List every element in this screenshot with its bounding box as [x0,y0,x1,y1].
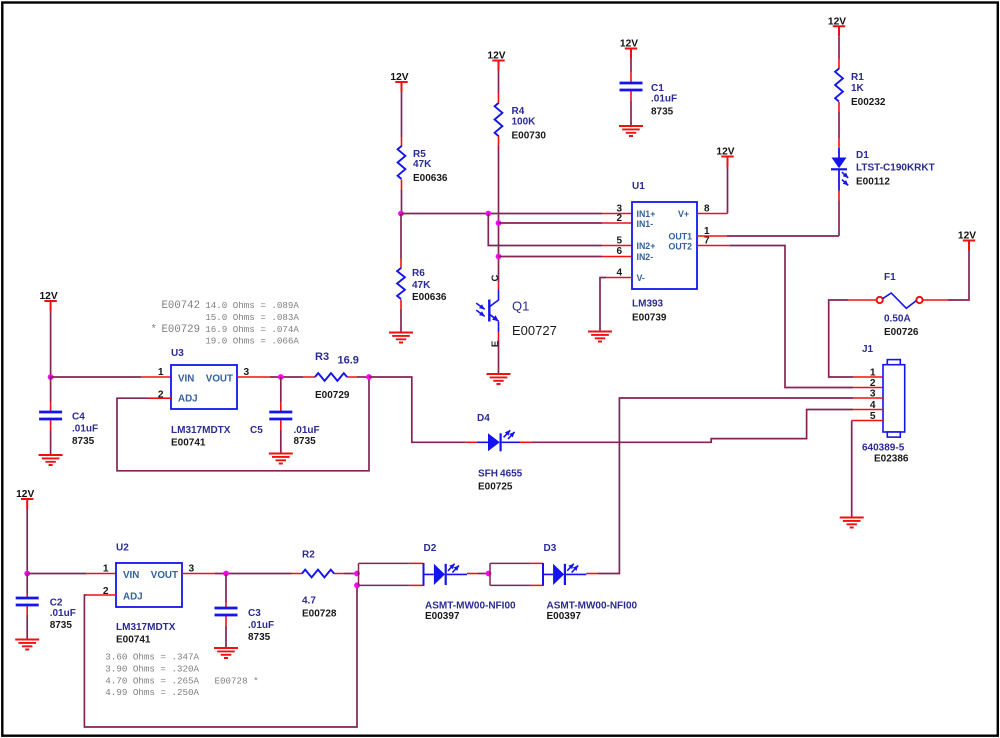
ground (C1) [619,126,643,136]
wire R1 to D1 [838,112,840,138]
svg-text:47K: 47K [413,159,432,170]
svg-text:E00729: E00729 [162,324,200,336]
capacitor C5 [250,412,320,447]
svg-text:14.0 Ohms = .089A: 14.0 Ohms = .089A [205,300,299,311]
resistor R4 [495,103,547,142]
svg-text:LTST-C190KRKT: LTST-C190KRKT [856,163,935,174]
svg-text:IN1-: IN1- [637,219,654,229]
wire J1 pin 3 to D3 cathode [597,398,853,574]
resistor R2 [302,550,337,620]
wire 12V to R1 [838,36,840,58]
resistor R3 [315,351,359,401]
svg-text:E00397: E00397 [425,611,460,622]
svg-text:E00728: E00728 [302,609,337,620]
comparator U1 (LM393) [632,181,697,324]
wire OUT2 to J1 pin 2 [730,246,853,388]
wire R2 pin stubs [291,573,345,575]
svg-text:E00739: E00739 [632,313,667,324]
pin 7 lead U1 OUT2 [697,245,730,247]
resistor R1 [835,69,886,109]
svg-text:IN2-: IN2- [637,252,654,262]
svg-text:J1: J1 [862,344,874,355]
pin 5 lead J1 [852,420,883,422]
pin 2 lead U2 ADJ [86,594,116,596]
svg-text:ASMT-MW00-NFI00: ASMT-MW00-NFI00 [425,601,516,612]
ground (U1 V-) [588,332,612,342]
svg-text:12V: 12V [958,231,976,242]
power 12V (R4 top) [487,51,505,71]
note R3 resistance table [151,300,300,347]
pin 3 lead J1 [853,397,883,399]
svg-text:12V: 12V [40,291,58,302]
wire R3 pin stubs [303,376,357,378]
svg-text:E00729: E00729 [315,390,350,401]
junction U3 VOUT / C5 [278,374,284,380]
junction R4 column / IN1- tap [496,220,502,226]
svg-text:.01uF: .01uF [50,608,76,619]
diode D1 (LED LTST-C190KRKT) [831,148,935,191]
svg-text:SFH 4655: SFH 4655 [478,469,523,480]
wire divider to U1 IN2+ [488,214,602,246]
ground (Q1 emitter) [487,374,511,384]
svg-text:E00636: E00636 [412,292,447,303]
svg-text:VIN: VIN [123,570,139,581]
pin 3 lead U3 VOUT [237,376,270,378]
svg-text:12V: 12V [716,147,734,158]
pin 4 lead U1 V- [606,277,632,279]
svg-text:LM317MDTX: LM317MDTX [171,425,231,436]
svg-text:5: 5 [616,236,622,247]
connector J1 (640389-5) [862,344,909,465]
svg-text:ADJ: ADJ [123,592,143,603]
svg-text:3.60 Ohms = .347A: 3.60 Ohms = .347A [105,652,199,663]
pin E lead Q1 emitter [498,332,500,340]
svg-text:3.90 Ohms = .320A: 3.90 Ohms = .320A [105,663,199,674]
note R2 resistance table [105,652,258,699]
svg-text:VOUT: VOUT [206,374,233,385]
pin lead D1 anode [838,138,840,148]
svg-text:ASMT-MW00-NFI00: ASMT-MW00-NFI00 [547,601,638,612]
pin 2 lead J1 [853,387,883,389]
wire node down to C4 [50,377,52,402]
diode D4 (SFH 4655 IR LED) [477,413,523,493]
resistor R5 [398,146,448,184]
svg-text:1: 1 [103,564,109,575]
power 12V (R1/D1 top) [828,16,846,36]
wire R6 pin stubs [400,258,402,310]
regulator U2 (LM317MDTX) [116,543,182,646]
svg-text:12V: 12V [828,16,846,27]
diode D3 (ASMT-MW00-NFI00 LED) [490,543,638,622]
svg-text:E00726: E00726 [884,327,919,338]
wire to U1 IN2- [499,256,603,258]
wire node down to C2 [26,574,28,594]
svg-text:8735: 8735 [651,107,674,118]
wire U1 V- to ground [600,278,606,332]
wire U1 V+ to 12V [727,167,729,214]
wire R6 to ground [400,310,402,333]
junction D2 / D3 [486,571,492,577]
transistor Q1 (phototransistor) [476,274,557,347]
pin lead F1 left [848,299,877,301]
ground (R6) [389,333,413,343]
svg-text:ADJ: ADJ [178,394,198,405]
pin 2 lead U3 ADJ [148,397,171,399]
pin 4 lead J1 [853,409,883,411]
svg-text:E00112: E00112 [856,177,890,188]
pin lead D3 cathode [586,573,597,575]
svg-text:R2: R2 [302,550,315,561]
wire C2 to ground [26,615,28,639]
svg-text:.01uF: .01uF [294,425,320,436]
regulator U3 (LM317MDTX) [171,348,237,449]
svg-text:1: 1 [158,367,164,378]
wire R3 junction to D4 [369,377,466,442]
junction C2 / U2 VIN [24,571,30,577]
capacitor C3 [215,608,275,643]
pin 3 lead U2 VOUT [182,573,215,575]
power 12V (C4/U3 input) [40,291,58,311]
svg-text:E00397: E00397 [547,611,582,622]
wire C3 pin stubs [225,603,227,627]
svg-text:D1: D1 [856,150,869,161]
svg-text:4.70 Ohms = .265A: 4.70 Ohms = .265A [105,675,199,686]
wire R4 pin stubs [498,93,500,147]
wire C3 column [225,574,227,603]
svg-text:E00636: E00636 [413,173,448,184]
svg-text:12V: 12V [390,72,408,83]
pin numbers U3 [158,367,250,400]
wire R5 pin stubs [401,137,403,191]
wire 12V to R5 [401,92,403,137]
wire 12V to R4 [498,71,500,94]
svg-text:U2: U2 [116,543,129,554]
svg-text:1: 1 [870,367,876,378]
pin 5 lead U1 IN2+ [602,245,632,247]
svg-text:R4: R4 [512,106,525,117]
wire F1 to J1 pin 1 [829,300,853,377]
ground (C4) [39,455,63,465]
wire D1 to OUT1 node [838,201,840,237]
svg-text:8735: 8735 [50,620,73,631]
svg-text:2: 2 [870,378,876,389]
pin lead D1 cathode [838,191,840,201]
svg-text:E00741: E00741 [171,438,206,449]
svg-text:640389-5: 640389-5 [862,443,905,454]
wire C5 column [280,377,282,402]
svg-text:100K: 100K [512,117,537,128]
pin 1 lead U2 VIN [86,573,116,575]
wire 12V to C1 [630,59,632,73]
pin 6 lead U1 IN2- [602,256,632,258]
wire C2 pin stubs [26,593,28,615]
wire OUT1 to D1 column [727,235,839,237]
svg-text:.01uF: .01uF [651,94,677,105]
wire C4 pin stubs [50,402,52,430]
svg-text:OUT1: OUT1 [669,232,693,242]
svg-text:C1: C1 [651,83,664,94]
wire C4 to ground [50,430,52,455]
pin numbers U2 [103,564,195,597]
svg-text:8735: 8735 [248,632,271,643]
svg-text:0.50A: 0.50A [884,314,911,325]
svg-text:R1: R1 [851,72,864,83]
wire D2 to D3 [478,573,489,575]
svg-text:.01uF: .01uF [248,620,274,631]
ground (C3) [214,648,238,658]
wire node to U3 VIN [51,376,141,378]
fuse F1 (0.50A) [877,272,923,338]
svg-text:8735: 8735 [294,436,317,447]
junction R4 column / IN2- tap [496,254,502,260]
pin 3 lead U1 IN1+ [602,213,632,215]
svg-text:*: * [151,324,157,336]
capacitor C4 [39,412,98,448]
svg-text:6: 6 [616,246,622,257]
pin lead D4 cathode [520,441,531,443]
pin numbers J1 [870,367,876,422]
wire node to U2 VIN [27,573,86,575]
wire divider bus to U1 IN1+ [401,213,602,215]
ground (C5) [269,454,293,464]
svg-text:E00730: E00730 [512,131,547,142]
svg-text:D4: D4 [477,413,490,424]
pin lead D4 anode [466,441,477,443]
junction R5/R6 divider node [398,211,404,217]
pin 1 lead J1 [853,376,883,378]
wire J1 pin 5 to ground [851,421,853,518]
diode D2 (ASMT-MW00-NFI00 LED) [359,543,517,622]
wire U2 VOUT to C3 node [215,573,292,575]
junction divider bus / IN2+ tap [485,211,491,217]
svg-text:IN2+: IN2+ [637,241,656,251]
svg-text:12V: 12V [620,39,638,50]
wire J1 pin 4 to D4 cathode [531,410,853,443]
svg-text:U1: U1 [632,181,645,192]
resistor R6 [397,268,447,303]
pin numbers U1 [616,204,710,279]
wire U3 VOUT to C5 node [270,376,303,378]
svg-text:D2: D2 [424,543,437,554]
svg-text:4.7: 4.7 [302,596,316,607]
wire C5 to ground [280,430,282,453]
pin 8 lead U1 V+ [697,213,728,215]
svg-text:12V: 12V [487,51,505,62]
svg-text:E00232: E00232 [851,97,886,108]
svg-text:E02386: E02386 [874,454,909,465]
svg-text:E00727: E00727 [512,323,557,338]
svg-text:U3: U3 [171,348,184,359]
wire U2 ADJ feedback loop [84,585,357,727]
wire C1 pin stubs [630,72,632,101]
ground (J1 pin 5) [840,518,864,528]
ground (C2) [15,640,39,650]
pin 2 lead U1 IN1- [602,222,632,224]
wire R2 to D2 node [345,573,358,575]
pin lead F1 right [923,299,948,301]
svg-text:C5: C5 [250,425,263,436]
svg-text:16.9 Ohms = .074A: 16.9 Ohms = .074A [205,324,299,335]
svg-text:F1: F1 [884,272,896,283]
svg-text:IN1+: IN1+ [637,209,656,219]
svg-text:R6: R6 [412,268,425,279]
wire R3 to junction [357,376,369,378]
wire R1 pin stubs [838,58,840,113]
wire C3 to ground [225,626,227,648]
svg-text:V+: V+ [678,209,689,219]
svg-text:.01uF: .01uF [72,424,98,435]
wire junction to R6 [400,214,402,259]
svg-text:C3: C3 [248,608,261,619]
pin lead D2 cathode [467,573,478,575]
svg-text:E00741: E00741 [116,635,151,646]
junction U2 VOUT / C3 [223,571,229,577]
pin 1 lead U1 OUT1 [697,235,727,237]
svg-text:OUT2: OUT2 [669,242,693,252]
svg-text:4.99 Ohms = .250A: 4.99 Ohms = .250A [105,687,199,698]
svg-text:C4: C4 [72,412,85,423]
svg-text:1K: 1K [851,83,865,94]
svg-text:C2: C2 [50,598,63,609]
power 12V (C2/U2 input) [16,489,34,509]
power 12V (R5 top) [390,72,408,92]
capacitor C1 [620,83,678,118]
junction R3 output / ADJ loop [366,374,372,380]
svg-text:E00728 *: E00728 * [215,675,259,686]
svg-text:19.0 Ohms = .066A: 19.0 Ohms = .066A [205,336,299,347]
svg-text:LM393: LM393 [632,299,664,310]
power 12V (U1 V+ supply) [716,147,734,167]
wire R4 to Q1 collector [498,146,500,282]
svg-text:16.9: 16.9 [338,355,359,367]
wire R5 to junction [401,190,403,214]
pin C lead Q1 collector [498,282,500,290]
wire U3 ADJ feedback loop [117,377,369,471]
svg-text:15.0 Ohms = .083A: 15.0 Ohms = .083A [205,312,299,323]
power 12V (F1 right) [958,231,976,251]
capacitor C2 [16,598,76,632]
svg-text:E00742: E00742 [162,300,200,312]
wire 12V down to F1 [948,251,969,301]
svg-text:12V: 12V [16,489,34,500]
svg-text:47K: 47K [412,280,431,291]
svg-text:E00725: E00725 [478,482,513,493]
svg-text:C: C [490,274,501,281]
junction C4 / U3 VIN [48,374,54,380]
wire Q1 emitter to ground [498,340,500,374]
svg-text:2: 2 [616,213,622,224]
svg-text:VOUT: VOUT [151,570,178,581]
svg-text:V-: V- [637,273,645,283]
svg-text:8735: 8735 [72,436,95,447]
svg-text:Q1: Q1 [512,299,529,314]
svg-text:LM317MDTX: LM317MDTX [116,622,176,633]
wire 12V to U3 node [50,311,52,377]
power 12V (C1 top) [620,39,638,59]
wire to U1 IN1- [499,222,603,224]
junction D2 / ADJ feedback [354,582,360,588]
svg-text:D3: D3 [544,543,557,554]
svg-text:R3: R3 [315,351,329,363]
junction R2 / D2 anode [354,571,360,577]
wire C5 pin stubs [280,402,282,430]
svg-text:VIN: VIN [178,374,194,385]
wire 12V to U2 node [26,509,28,574]
wire C1 to ground [630,101,632,126]
pin 1 lead U3 VIN [141,376,171,378]
